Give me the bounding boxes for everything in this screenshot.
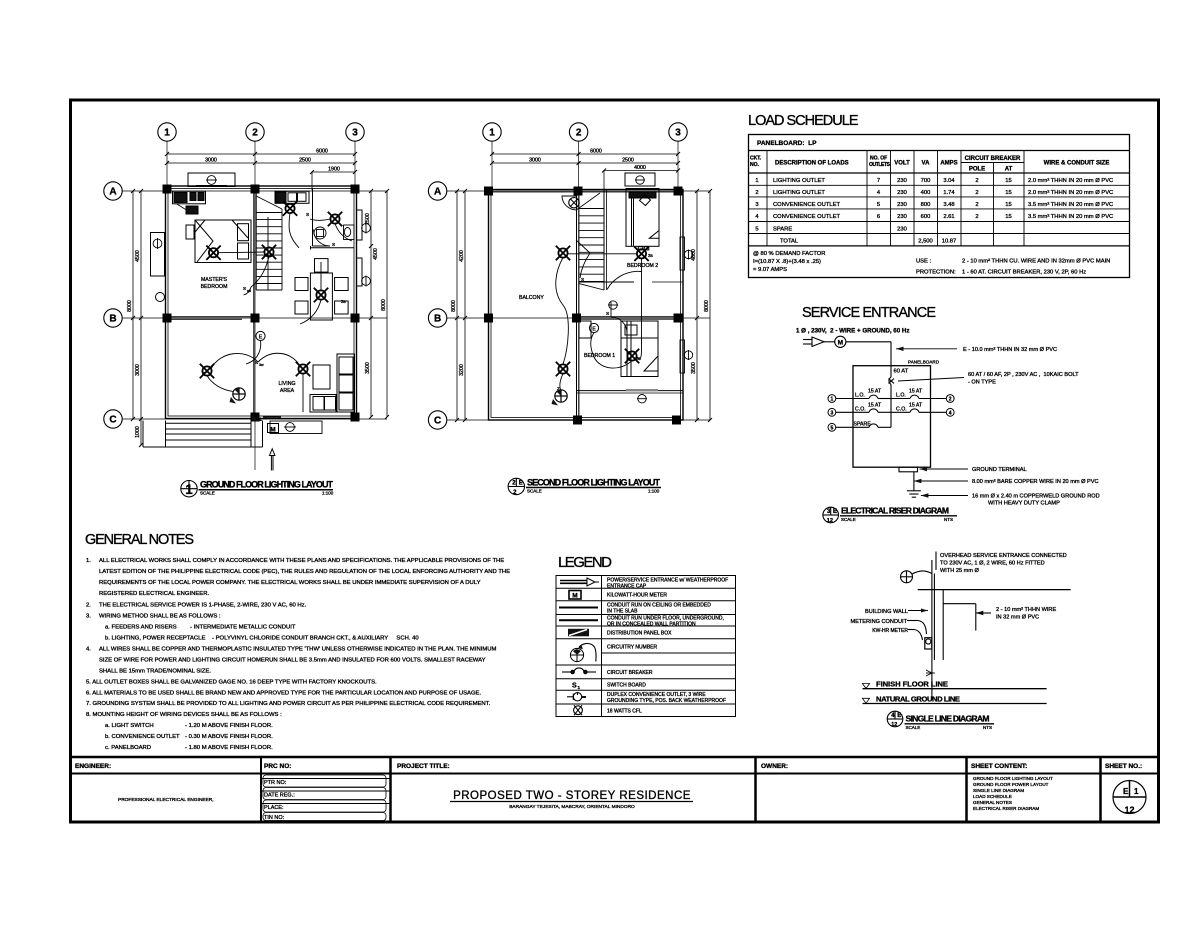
svg-text:6000: 6000 (316, 148, 328, 154)
svg-text:15 AT: 15 AT (909, 402, 923, 408)
svg-text:GROUND FLOOR LIGHTING LAYOUT: GROUND FLOOR LIGHTING LAYOUT (200, 480, 334, 490)
svg-text:AREA: AREA (280, 388, 295, 394)
svg-text:12: 12 (1124, 805, 1134, 815)
svg-text:3w: 3w (255, 416, 261, 421)
svg-text:ELECTRICAL RISER DIAGRAM: ELECTRICAL RISER DIAGRAM (973, 806, 1039, 811)
svg-text:2,500: 2,500 (918, 238, 933, 244)
svg-text:1 - 60 AT. CIRCUIT BREAKER, 23: 1 - 60 AT. CIRCUIT BREAKER, 230 V, 2P, 6… (962, 270, 1086, 276)
svg-text:15 AT: 15 AT (868, 389, 882, 395)
svg-text:BEDROOM 1: BEDROOM 1 (584, 353, 615, 359)
svg-text:CIRCUIT BREAKER: CIRCUIT BREAKER (965, 156, 1021, 162)
svg-text:CIRCUIT BREAKER: CIRCUIT BREAKER (607, 670, 653, 676)
svg-text:7: 7 (877, 178, 880, 184)
svg-text:1:100: 1:100 (322, 491, 334, 496)
svg-text:FINISH FLOOR LINE: FINISH FLOOR LINE (876, 680, 948, 689)
svg-text:8.00 mm² BARE COPPER WIRE IN 2: 8.00 mm² BARE COPPER WIRE IN 20 mm Ø PVC (972, 479, 1099, 485)
svg-text:PROPOSED TWO - STOREY RESIDENC: PROPOSED TWO - STOREY RESIDENCE (453, 790, 691, 802)
svg-text:GROUNDING TYPE, POS. BACK WEAT: GROUNDING TYPE, POS. BACK WEATHERPROOF (607, 698, 726, 704)
svg-text:ELECTRICAL RISER DIAGRAM: ELECTRICAL RISER DIAGRAM (841, 506, 949, 516)
svg-text:PANELBOARD: LP: PANELBOARD: LP (757, 140, 817, 147)
svg-text:ALL WIRES SHALL BE COPPER AND: ALL WIRES SHALL BE COPPER AND THERMOPLAS… (99, 647, 497, 653)
svg-text:- POLYVINYL CHLORIDE CONDUIT: - POLYVINYL CHLORIDE CONDUIT BRANCH CKT.… (212, 636, 419, 642)
svg-text:1:100: 1:100 (648, 489, 660, 494)
svg-text:LIGHTING OUTLET: LIGHTING OUTLET (773, 190, 825, 196)
svg-text:3.5 mm² THHN IN 20 mm Ø PVC: 3.5 mm² THHN IN 20 mm Ø PVC (1028, 214, 1113, 220)
svg-text:3000: 3000 (205, 157, 217, 163)
svg-text:PANELBOARD: PANELBOARD (908, 360, 940, 365)
svg-text:8000: 8000 (381, 299, 387, 311)
svg-text:18 WATTS CFL: 18 WATTS CFL (607, 708, 642, 714)
svg-text:2: 2 (949, 397, 952, 403)
svg-text:DESCRIPTION OF LOADS: DESCRIPTION OF LOADS (775, 161, 849, 167)
svg-text:3: 3 (831, 410, 834, 416)
svg-text:LOAD SCHEDULE: LOAD SCHEDULE (748, 113, 860, 129)
svg-text:2.0 mm² THHN IN 20 mm Ø PVC: 2.0 mm² THHN IN 20 mm Ø PVC (1028, 190, 1113, 196)
svg-text:6. ALL MATERIALS TO BE USED SH: 6. ALL MATERIALS TO BE USED SHALL BE BRA… (86, 691, 481, 697)
svg-text:REGISTERED ELECTRICAL ENGINEER: REGISTERED ELECTRICAL ENGINEER. (99, 591, 209, 597)
svg-text:3: 3 (755, 202, 758, 208)
svg-text:WIRE & CONDUIT SIZE: WIRE & CONDUIT SIZE (1044, 161, 1110, 167)
svg-text:KILOWATT-HOUR METER: KILOWATT-HOUR METER (607, 593, 667, 599)
svg-text:4200: 4200 (459, 250, 465, 262)
svg-text:S: S (332, 242, 335, 247)
svg-text:S: S (581, 277, 584, 282)
svg-text:SCALE: SCALE (527, 489, 542, 494)
svg-text:2500: 2500 (622, 157, 634, 163)
svg-text:- 0.30 M ABOVE FINISH FLOOR.: - 0.30 M ABOVE FINISH FLOOR. (185, 734, 273, 740)
svg-text:1: 1 (489, 128, 495, 139)
svg-text:60 AT / 60 AF, 2P , 230V AC ,: 60 AT / 60 AF, 2P , 230V AC , 10KAIC BOL… (968, 372, 1079, 378)
svg-text:3500: 3500 (691, 362, 697, 374)
svg-text:AMPS: AMPS (940, 161, 957, 167)
svg-text:PRC NO:: PRC NO: (264, 763, 291, 770)
svg-text:SINGLE LINE DIAGRAM: SINGLE LINE DIAGRAM (973, 788, 1024, 793)
svg-text:15 AT: 15 AT (909, 389, 923, 395)
svg-text:BUILDING WALL: BUILDING WALL (865, 609, 908, 615)
svg-text:E - 10.0 mm² THHN IN 32 mm Ø P: E - 10.0 mm² THHN IN 32 mm Ø PVC (963, 347, 1057, 353)
svg-text:SPARE: SPARE (773, 226, 792, 232)
svg-text:1: 1 (755, 178, 758, 184)
svg-text:230: 230 (897, 214, 907, 220)
svg-text:E: E (833, 509, 837, 515)
svg-text:L.O.: L.O. (896, 393, 906, 399)
svg-text:4.: 4. (86, 647, 91, 653)
svg-text:NATURAL GROUND LINE: NATURAL GROUND LINE (876, 694, 960, 703)
svg-text:2.61: 2.61 (943, 214, 954, 220)
svg-text:NO. OF: NO. OF (870, 156, 887, 162)
svg-text:1.74: 1.74 (943, 190, 955, 196)
svg-text:8000: 8000 (704, 300, 710, 312)
svg-text:KW-HR METER: KW-HR METER (872, 628, 908, 634)
svg-text:800: 800 (921, 202, 931, 208)
svg-text:- 1.20 M ABOVE FINISH FLOOR.: - 1.20 M ABOVE FINISH FLOOR. (185, 723, 273, 729)
svg-text:5. ALL OUTLET BOXES SHALL BE G: 5. ALL OUTLET BOXES SHALL BE GALVANIZED … (86, 680, 377, 686)
svg-text:15: 15 (1005, 214, 1011, 220)
svg-text:60 AT: 60 AT (894, 369, 909, 375)
svg-text:VA: VA (922, 161, 931, 167)
svg-text:- ON TYPE: - ON TYPE (968, 380, 996, 386)
svg-text:6: 6 (877, 214, 880, 220)
svg-text:LEGEND: LEGEND (558, 554, 613, 571)
svg-text:15: 15 (1005, 190, 1011, 196)
svg-text:PLACE:: PLACE: (264, 805, 284, 811)
svg-text:3.04: 3.04 (943, 178, 955, 184)
svg-text:@ 80 % DEMAND FACTOR: @ 80 % DEMAND FACTOR (753, 251, 825, 257)
svg-text:230: 230 (897, 202, 907, 208)
svg-text:5: 5 (877, 202, 880, 208)
svg-text:LIVING: LIVING (278, 381, 295, 387)
svg-text:2 - 10 mm² THHN WIRE: 2 - 10 mm² THHN WIRE (996, 607, 1056, 613)
svg-text:SCALE: SCALE (906, 725, 921, 730)
svg-text:PROTECTION:: PROTECTION: (916, 270, 956, 276)
svg-text:2 - 10 mm² THHN CU. WIRE AND: 2 - 10 mm² THHN CU. WIRE AND IN 32mm Ø P… (962, 259, 1110, 265)
svg-text:3: 3 (352, 128, 358, 139)
svg-text:GROUND FLOOR POWER LAYOUT: GROUND FLOOR POWER LAYOUT (973, 782, 1049, 787)
svg-text:3.48: 3.48 (943, 202, 954, 208)
svg-text:8000: 8000 (451, 300, 457, 312)
svg-text:BEDROOM 2: BEDROOM 2 (627, 263, 658, 269)
svg-text:GROUND FLOOR LIGHTING LAYOUT: GROUND FLOOR LIGHTING LAYOUT (973, 776, 1053, 781)
svg-text:3500: 3500 (365, 362, 371, 374)
svg-text:12: 12 (891, 722, 897, 728)
svg-text:3: 3 (675, 128, 681, 139)
svg-text:SHEET CONTENT:: SHEET CONTENT: (971, 763, 1027, 770)
svg-text:BALCONY: BALCONY (519, 295, 544, 301)
svg-text:SWITCH BOARD: SWITCH BOARD (607, 683, 646, 689)
svg-text:NTS: NTS (944, 517, 953, 522)
svg-text:OWNER:: OWNER: (761, 763, 788, 770)
svg-text:E: E (519, 481, 523, 487)
svg-text:S: S (202, 371, 205, 376)
svg-text:3s: 3s (648, 253, 654, 258)
svg-text:4: 4 (949, 410, 952, 416)
svg-text:5: 5 (755, 226, 758, 232)
svg-text:S: S (306, 212, 309, 217)
svg-text:12: 12 (827, 518, 833, 524)
svg-text:3000: 3000 (135, 364, 141, 376)
svg-text:S: S (572, 682, 577, 689)
svg-text:L.O.: L.O. (855, 393, 865, 399)
svg-text:SHEET NO.:: SHEET NO.: (1105, 763, 1142, 770)
svg-text:2: 2 (975, 178, 978, 184)
svg-text:15 AT: 15 AT (868, 402, 882, 408)
svg-text:ENTRANCE CAP: ENTRANCE CAP (607, 584, 647, 590)
svg-text:WITH 25 mm Ø: WITH 25 mm Ø (940, 568, 979, 574)
svg-text:PROFESSIONAL ELECTRICAL ENGINE: PROFESSIONAL ELECTRICAL ENGINEER, (118, 797, 214, 803)
svg-text:- 1.80 M ABOVE FINISH FLOOR.: - 1.80 M ABOVE FINISH FLOOR. (185, 745, 273, 751)
svg-text:b. CONVENIENCE OUTLET: b. CONVENIENCE OUTLET (105, 734, 180, 740)
svg-text:3.5 mm² THHN IN 20 mm Ø PVC: 3.5 mm² THHN IN 20 mm Ø PVC (1028, 202, 1113, 208)
svg-text:GENERAL NOTES: GENERAL NOTES (973, 800, 1012, 805)
svg-text:C.O.: C.O. (855, 406, 866, 412)
svg-text:1 Ø , 230V, 2 - WIRE + GROUND: 1 Ø , 230V, 2 - WIRE + GROUND, 60 Hz (796, 328, 909, 335)
svg-text:NTS: NTS (983, 725, 992, 730)
svg-text:3s: 3s (341, 299, 347, 304)
svg-text:SIZE OF WIRE FOR POWER AND LIG: SIZE OF WIRE FOR POWER AND LIGHTING CIRC… (99, 658, 486, 664)
svg-text:3200: 3200 (459, 364, 465, 376)
svg-text:OVERHEAD SERVICE ENTRANCE CONN: OVERHEAD SERVICE ENTRANCE CONNECTED (940, 553, 1067, 559)
svg-text:OUTLETS: OUTLETS (869, 162, 891, 168)
svg-text:PROJECT TITLE:: PROJECT TITLE: (397, 763, 450, 770)
svg-text:230: 230 (897, 190, 907, 196)
svg-text:1: 1 (185, 482, 193, 497)
svg-text:10.87: 10.87 (942, 238, 957, 244)
svg-text:1000: 1000 (135, 426, 141, 438)
svg-text:TOTAL: TOTAL (780, 238, 799, 244)
svg-text:CONVENIENCE OUTLET: CONVENIENCE OUTLET (773, 202, 840, 208)
svg-text:2: 2 (975, 214, 978, 220)
svg-text:E: E (1123, 787, 1129, 796)
svg-text:1: 1 (831, 397, 834, 403)
svg-text:C: C (434, 416, 441, 427)
svg-text:SINGLE LINE DIAGRAM: SINGLE LINE DIAGRAM (906, 714, 990, 724)
svg-text:ab: ab (247, 289, 251, 293)
svg-text:700: 700 (921, 178, 931, 184)
svg-text:1.: 1. (86, 558, 91, 564)
svg-text:3.: 3. (86, 614, 91, 620)
svg-text:2500: 2500 (299, 157, 311, 163)
svg-text:M: M (270, 427, 275, 434)
svg-text:A: A (434, 187, 441, 198)
svg-text:IN THE SLAB: IN THE SLAB (607, 608, 638, 614)
svg-text:USE :: USE : (916, 259, 932, 265)
svg-text:NO.: NO. (750, 162, 760, 168)
svg-text:IN 32 mm Ø PVC: IN 32 mm Ø PVC (996, 615, 1039, 621)
svg-text:BEDROOM: BEDROOM (201, 284, 228, 290)
svg-text:S: S (606, 311, 609, 316)
svg-text:1: 1 (1134, 787, 1139, 796)
svg-text:2: 2 (755, 190, 758, 196)
svg-text:C.O.: C.O. (896, 406, 907, 412)
svg-text:BARANGAY TEJESITA, MABCRAY, OR: BARANGAY TEJESITA, MABCRAY, ORIENTAL MIN… (509, 804, 635, 810)
svg-text:2.: 2. (86, 603, 91, 609)
svg-text:DATE REG.:: DATE REG.: (264, 793, 295, 799)
svg-text:2.0 mm² THHN IN 20 mm Ø PVC: 2.0 mm² THHN IN 20 mm Ø PVC (1028, 178, 1113, 184)
svg-text:2: 2 (252, 128, 258, 139)
svg-text:8000: 8000 (127, 300, 133, 312)
svg-text:CONVENIENCE OUTLET: CONVENIENCE OUTLET (773, 214, 840, 220)
svg-text:A: A (109, 187, 116, 198)
svg-text:1: 1 (164, 128, 170, 139)
svg-text:400: 400 (921, 190, 931, 196)
svg-text:POLE: POLE (969, 167, 985, 173)
svg-text:15: 15 (1005, 202, 1011, 208)
svg-text:I=(10.87 X .8)+(3.48 x .25): I=(10.87 X .8)+(3.48 x .25) (753, 259, 821, 265)
svg-text:C: C (109, 415, 116, 426)
svg-text:METERING CONDUIT: METERING CONDUIT (850, 619, 907, 625)
svg-text:2: 2 (576, 128, 582, 139)
svg-text:AT: AT (1005, 167, 1013, 173)
svg-text:3s: 3s (636, 356, 642, 361)
svg-text:LIGHTING OUTLET: LIGHTING OUTLET (773, 178, 825, 184)
svg-text:4800: 4800 (691, 249, 697, 261)
svg-text:= 9.07 AMPS: = 9.07 AMPS (753, 267, 787, 273)
svg-text:E: E (897, 713, 901, 719)
svg-text:CIRCUITRY NUMBER: CIRCUITRY NUMBER (607, 645, 657, 651)
svg-text:LOAD SCHEDULE: LOAD SCHEDULE (973, 794, 1012, 799)
svg-text:VOLT: VOLT (894, 161, 910, 167)
svg-text:DISTRIBUTION PANEL BOX: DISTRIBUTION PANEL BOX (607, 631, 672, 637)
svg-text:WIRING METHOD SHALL BE AS FOLL: WIRING METHOD SHALL BE AS FOLLOWS : (99, 614, 221, 620)
svg-text:SERVICE ENTRANCE: SERVICE ENTRANCE (802, 305, 937, 321)
svg-text:a. FEEDERS AND RISERS: a. FEEDERS AND RISERS (105, 625, 177, 631)
svg-text:b. LIGHTING, POWER RECEPTACLE: b. LIGHTING, POWER RECEPTACLE (105, 636, 205, 642)
svg-text:5: 5 (831, 425, 834, 431)
svg-text:7. GROUNDING SYSTEM SHALL BE P: 7. GROUNDING SYSTEM SHALL BE PROVIDED TO… (86, 701, 491, 707)
svg-text:8. MOUNTING HEIGHT OF WIRING D: 8. MOUNTING HEIGHT OF WIRING DEVICES SHA… (86, 712, 282, 718)
svg-text:4000: 4000 (634, 165, 646, 171)
svg-text:16 mm Ø x 2.40 m COPPERWELD GR: 16 mm Ø x 2.40 m COPPERWELD GROUND ROD (972, 493, 1100, 499)
svg-text:4500: 4500 (135, 250, 141, 262)
svg-text:SCALE: SCALE (200, 491, 215, 496)
svg-text:REQUIREMENTS OF THE LOCAL POWE: REQUIREMENTS OF THE LOCAL POWER COMPANY.… (99, 580, 481, 586)
svg-text:1900: 1900 (328, 166, 340, 172)
svg-text:S: S (255, 360, 258, 365)
svg-text:6000: 6000 (590, 148, 602, 154)
svg-text:a. LIGHT SWITCH: a. LIGHT SWITCH (105, 723, 154, 729)
svg-text:3w: 3w (259, 363, 264, 367)
svg-text:ALL ELECTRICAL WORKS SHALL COM: ALL ELECTRICAL WORKS SHALL COMPLY IN ACC… (99, 558, 504, 564)
svg-text:3000: 3000 (529, 157, 541, 163)
svg-text:MASTER'S: MASTER'S (201, 277, 228, 283)
svg-text:600: 600 (921, 214, 931, 220)
svg-text:SECOND FLOOR LIGHTING LAYOUT: SECOND FLOOR LIGHTING LAYOUT (527, 477, 661, 487)
svg-text:GENERAL NOTES: GENERAL NOTES (85, 532, 195, 548)
svg-text:SHALL BE 15mm TRADE/NOMINAL S: SHALL BE 15mm TRADE/NOMINAL SIZE. (99, 669, 211, 675)
svg-text:B: B (109, 314, 116, 325)
svg-text:SCALE: SCALE (841, 517, 856, 522)
svg-text:OR IN CONCEALED WALL PARTITION: OR IN CONCEALED WALL PARTITION (607, 621, 696, 627)
svg-text:THE ELECTRICAL SERVICE POWER I: THE ELECTRICAL SERVICE POWER IS 1-PHASE,… (99, 603, 307, 609)
svg-text:PTR NO:: PTR NO: (264, 780, 287, 786)
svg-text:4500: 4500 (373, 248, 379, 260)
svg-text:SPARE: SPARE (854, 422, 872, 428)
svg-text:230: 230 (897, 226, 907, 232)
svg-text:TO 230V AC, 1 Ø, 2 WIRE, 60 Hz: TO 230V AC, 1 Ø, 2 WIRE, 60 Hz FITTED (940, 561, 1045, 567)
svg-text:LATEST EDITION OF THE PHILIPPI: LATEST EDITION OF THE PHILIPPINE ELECTRI… (99, 569, 510, 575)
svg-text:M: M (838, 339, 843, 346)
svg-text:M: M (572, 593, 577, 600)
svg-text:- INTERMEDIATE METALLIC CONDU: - INTERMEDIATE METALLIC CONDUIT (190, 625, 296, 631)
svg-text:B: B (434, 314, 441, 325)
svg-text:c. PANELBOARD: c. PANELBOARD (105, 745, 151, 751)
svg-text:2: 2 (975, 202, 978, 208)
svg-text:2: 2 (975, 190, 978, 196)
svg-text:ENGINEER:: ENGINEER: (75, 763, 111, 770)
svg-text:15: 15 (1005, 178, 1011, 184)
svg-text:S: S (243, 286, 246, 291)
svg-text:CKT.: CKT. (750, 156, 762, 162)
svg-text:230: 230 (897, 178, 907, 184)
svg-text:WITH HEAVY DUTY CLAMP: WITH HEAVY DUTY CLAMP (988, 500, 1060, 506)
svg-text:GROUND TERMINAL: GROUND TERMINAL (972, 467, 1027, 473)
svg-text:TIN NO:: TIN NO: (264, 815, 285, 821)
